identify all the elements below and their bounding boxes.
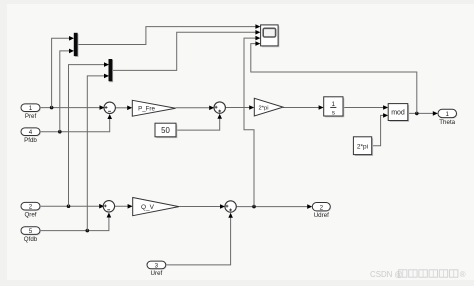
watermark CSDN <box>370 270 466 279</box>
wire Pfdb to Mux1 input2 <box>60 51 73 132</box>
svg-text:1: 1 <box>332 101 336 108</box>
node junction Qref branch <box>67 204 71 208</box>
wire Qref to Mux2 input1 <box>69 65 108 207</box>
node junction Theta feedback <box>415 112 419 116</box>
gain P_Fre <box>132 100 175 116</box>
wire Pref to Sum1 <box>40 105 105 110</box>
svg-text:2: 2 <box>320 204 324 211</box>
svg-text:50: 50 <box>161 126 170 135</box>
inport 4 Pfdb <box>21 128 41 144</box>
inport 2 Qref <box>21 202 41 218</box>
mod block <box>388 104 409 122</box>
svg-text:mod: mod <box>391 110 405 117</box>
inport 5 Qfdb <box>21 227 41 243</box>
gain Q_V <box>133 198 179 216</box>
svg-text:5: 5 <box>29 228 33 235</box>
wire Mux1 to Scope input1 <box>77 27 258 45</box>
node junction Udref branch <box>252 205 256 209</box>
wire Theta feedback to Scope input4 <box>251 44 417 114</box>
wire gain P_Fre to Sum2 <box>176 106 215 111</box>
svg-text:Udref: Udref <box>314 212 329 219</box>
wire Sum1 to gain P_Fre <box>115 106 132 111</box>
inport 3 Uref <box>147 261 167 277</box>
mux Mux2 <box>109 59 114 82</box>
integrator U 1/s <box>324 97 345 118</box>
wire Qref to Sum3 <box>40 204 104 209</box>
constant 50 <box>155 123 177 138</box>
wire Integrator to mod input1 <box>343 105 388 110</box>
svg-text:3: 3 <box>155 262 159 269</box>
sum Sum3 <box>103 201 114 212</box>
svg-text:2*pi: 2*pi <box>259 106 269 112</box>
wire Sum3 to gain Q_V <box>115 204 133 209</box>
wire Sum2 to gain 2pi <box>225 105 254 110</box>
wire constant 50 to Sum2 bottom <box>176 114 222 130</box>
svg-text:4: 4 <box>29 129 33 136</box>
wire mod to Theta <box>408 111 438 116</box>
outport 1 Theta <box>438 109 458 126</box>
svg-text:Uref: Uref <box>151 270 163 277</box>
svg-text:Qfdb: Qfdb <box>24 236 38 243</box>
node junction Qfdb branch <box>86 229 90 233</box>
inport 1 Pref <box>21 104 41 120</box>
svg-text:s: s <box>332 110 335 117</box>
svg-text:1: 1 <box>29 105 33 112</box>
svg-text:Pref: Pref <box>25 113 37 120</box>
svg-text:Pfdb: Pfdb <box>24 137 37 144</box>
wire Pref to Mux1 input1 <box>52 38 73 107</box>
svg-text:P_Fre: P_Fre <box>138 106 155 113</box>
svg-text:2: 2 <box>29 204 33 211</box>
sum Sum1 <box>104 102 115 113</box>
wire gain Q_V to Sum4 <box>179 204 225 209</box>
scope Scope <box>261 25 280 47</box>
wire Mux2 to Scope input2 <box>112 32 258 70</box>
svg-text:CSDN @: CSDN @ <box>370 270 403 279</box>
wire Udref branch to Scope input3 <box>244 38 259 207</box>
outport 2 Udref <box>312 203 331 220</box>
wire Qfdb to Mux2 input2 <box>87 76 107 231</box>
wire constant 2pi to mod input2 <box>372 113 388 146</box>
svg-text:1: 1 <box>445 111 449 118</box>
node junction Pref branch <box>50 106 54 110</box>
wire Qfdb to Sum3 bottom <box>40 213 111 231</box>
gain 2*pi <box>254 98 283 116</box>
sum Sum2 <box>214 102 225 113</box>
sum Sum4 <box>225 201 236 212</box>
wire Pfdb to Sum1 bottom <box>40 114 112 132</box>
svg-text:Theta: Theta <box>439 119 455 126</box>
svg-text:Qref: Qref <box>24 211 36 218</box>
node junction Pfdb branch <box>58 130 62 134</box>
svg-text:Q_V: Q_V <box>141 204 155 211</box>
svg-text:2*pi: 2*pi <box>357 143 368 150</box>
mux Mux1 <box>74 33 79 57</box>
constant 2*pi <box>353 137 373 156</box>
svg-text:®: ® <box>460 270 466 279</box>
wire gain 2pi to Integrator <box>283 105 324 110</box>
wire Sum4 to Udref <box>236 204 312 209</box>
wire Uref to Sum4 bottom <box>166 213 233 265</box>
